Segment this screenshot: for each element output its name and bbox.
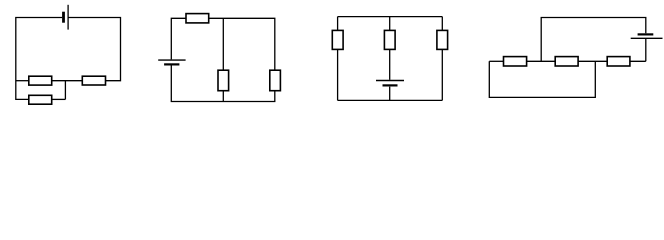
resistor R4 [186, 14, 209, 23]
resistor R10 [504, 57, 527, 66]
wire [69, 18, 121, 81]
wire (top loop) [541, 18, 646, 62]
wire [389, 49, 391, 79]
wire (junction vertical) [64, 81, 66, 100]
resistor R11 [555, 57, 578, 66]
wire [337, 49, 339, 100]
resistor R7 [332, 30, 343, 49]
wire (bottom loop) [489, 61, 595, 97]
resistor R1 [29, 76, 52, 85]
wire [171, 18, 186, 59]
resistor R5 [218, 70, 229, 91]
resistor R12 [607, 57, 630, 66]
wire [389, 17, 391, 31]
wire [338, 16, 443, 18]
battery B4 [631, 33, 663, 38]
resistor R8 [384, 30, 395, 49]
wire [389, 87, 391, 101]
resistor R2 [82, 76, 105, 85]
wire [489, 60, 503, 62]
wire [578, 60, 607, 62]
wire [16, 80, 29, 82]
wire [630, 60, 646, 62]
battery B2 [158, 60, 185, 65]
wire [52, 80, 83, 82]
wire [16, 18, 62, 100]
wire [527, 60, 556, 62]
resistor R9 [437, 30, 448, 49]
wire [338, 99, 443, 101]
wire [441, 17, 443, 31]
wire [171, 66, 274, 102]
wire [52, 98, 66, 100]
wire [645, 38, 647, 61]
wire [222, 18, 224, 70]
wire [222, 91, 224, 102]
battery B1 [62, 5, 68, 30]
resistor R6 [270, 70, 281, 91]
resistor R3 [29, 95, 52, 104]
wire [441, 49, 443, 100]
battery B3 [376, 81, 404, 87]
wire [209, 18, 275, 70]
wire [337, 17, 339, 31]
